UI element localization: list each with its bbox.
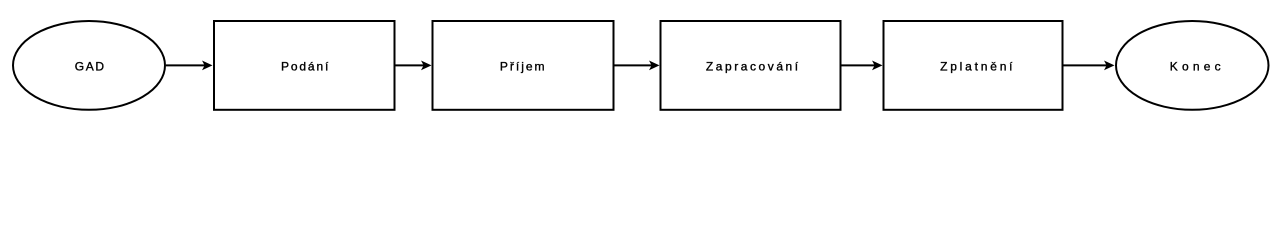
process box Prijem [433, 21, 614, 110]
terminator ellipse Konec [1116, 21, 1269, 110]
svg-text:Zapracování: Zapracování [706, 60, 801, 74]
wire arrow Prijem to Zapracovani [615, 61, 660, 71]
wire arrow Podani to Prijem [396, 61, 432, 71]
process box Podani [214, 21, 395, 110]
svg-text:Zplatnění: Zplatnění [940, 60, 1015, 74]
svg-text:Příjem: Příjem [500, 60, 547, 74]
wire arrow GAD to Podani [166, 61, 213, 71]
wire arrow Zplatneni to Konec [1064, 61, 1115, 71]
process box Zapracovani [661, 21, 841, 110]
svg-text:Konec: Konec [1170, 60, 1225, 74]
wire arrow Zapracovani to Zplatneni [842, 61, 883, 71]
svg-text:Podání: Podání [281, 60, 330, 74]
process box Zplatneni [884, 21, 1063, 110]
svg-text:GAD: GAD [75, 60, 106, 74]
terminator ellipse GAD [13, 21, 165, 110]
